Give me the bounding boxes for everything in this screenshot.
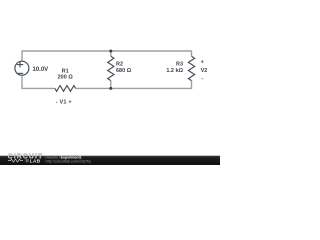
R3 name label xyxy=(176,62,183,68)
V1 value label 10.0V xyxy=(33,67,49,73)
resistor R2 xyxy=(108,56,114,80)
svg-text:R2: R2 xyxy=(116,62,123,68)
svg-text:200 Ω: 200 Ω xyxy=(58,74,74,80)
V2 annotation name xyxy=(201,68,208,74)
voltage source V1 xyxy=(15,61,29,75)
R2 value label 680 Ω xyxy=(116,68,132,74)
wire bottom-left segment xyxy=(22,76,55,88)
V1 voltage annotation - V1 + xyxy=(56,100,72,106)
svg-text:680 Ω: 680 Ω xyxy=(116,68,132,74)
footer bar xyxy=(0,156,220,165)
svg-text:- V1 +: - V1 + xyxy=(56,100,72,106)
footer credit line 1 xyxy=(46,156,82,160)
V2 annotation plus xyxy=(201,59,204,65)
svg-text:http://circuitlab.com/c/kj7by: http://circuitlab.com/c/kj7by xyxy=(46,159,92,163)
R2 name label xyxy=(116,62,123,68)
CircuitLab logo capacitor mark xyxy=(26,159,28,162)
wire top-left segment xyxy=(22,51,111,62)
CircuitLab logo resistor squiggle xyxy=(8,159,23,162)
wire top-right segment xyxy=(111,51,192,56)
resistor R1 xyxy=(55,86,76,92)
junction dot R2 top xyxy=(109,50,112,53)
R1 value label 200 Ω xyxy=(58,74,74,80)
resistor R3 xyxy=(188,56,194,80)
svg-text:+: + xyxy=(201,59,204,65)
svg-text:R3: R3 xyxy=(176,62,183,68)
R1 name label xyxy=(62,69,69,75)
wire bottom-right segment xyxy=(111,81,192,89)
CircuitLab logo wordmark xyxy=(8,154,44,161)
svg-text:-: - xyxy=(201,76,203,82)
junction dot R2 bottom xyxy=(109,87,112,90)
footer credit line 2 xyxy=(46,159,92,163)
V2 annotation minus xyxy=(201,76,203,82)
wire bottom-middle segment xyxy=(76,87,111,89)
R3 value label 1.2 kΩ xyxy=(166,68,183,74)
svg-text:V2: V2 xyxy=(201,68,208,74)
wire R2 bottom stem xyxy=(110,81,112,89)
svg-text:LAB: LAB xyxy=(30,158,41,163)
CircuitLab logo LAB text xyxy=(30,158,41,163)
svg-text:1.2 kΩ: 1.2 kΩ xyxy=(166,68,183,74)
wire R2 top stem xyxy=(110,51,112,56)
svg-text:10.0V: 10.0V xyxy=(33,67,49,73)
